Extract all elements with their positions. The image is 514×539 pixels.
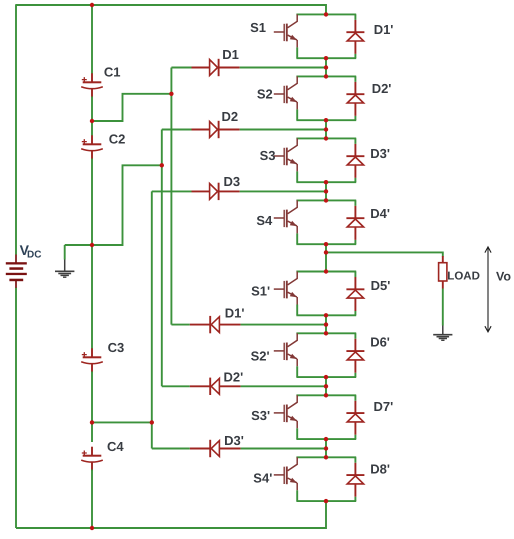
svg-text:D8': D8' (370, 461, 390, 476)
node cell 3 emitter junction (324, 180, 328, 184)
diode D3 (clamp) (152, 183, 326, 200)
wire C1-C2 node to clamp line L1 (92, 94, 171, 121)
svg-text:D3': D3' (224, 433, 244, 448)
node cell 1 emitter junction (324, 56, 328, 60)
node D2 cathode junction (324, 127, 328, 131)
label D2&#39; (clamp) (224, 370, 244, 385)
node D1' anode junction (324, 322, 328, 326)
svg-text:S3': S3' (251, 408, 270, 423)
transistor S2' (IGBT) (274, 333, 297, 377)
svg-text:D2': D2' (372, 81, 392, 96)
svg-text:D3': D3' (370, 146, 390, 161)
svg-text:S1: S1 (250, 20, 266, 35)
capacitor C3 (81, 348, 103, 372)
label D6' (370, 335, 390, 350)
node output tap (324, 250, 328, 254)
label D7' (374, 399, 394, 414)
svg-text:D2': D2' (224, 370, 244, 385)
wire cell 2 top rail (296, 75, 356, 77)
svg-text:S3: S3 (260, 148, 276, 163)
wire cell 1 top rail (296, 13, 356, 15)
wire cell 8 top rail (296, 456, 356, 458)
wire clamp line L1 (D1 anode to D1' cathode) (170, 68, 172, 325)
node cell 4 collector junction (324, 198, 328, 202)
node cell 6 collector junction (324, 331, 328, 335)
label S3' (251, 408, 270, 423)
wire cell 4 bottom rail (296, 243, 356, 245)
wire top rail from DC source to S1 collector (16, 5, 326, 14)
wire clamp line L3 (D3 anode to D3' cathode) (151, 191, 153, 448)
label S1' (251, 284, 270, 299)
transistor S1 (IGBT) (274, 14, 297, 58)
node C3-C4 midpoint (90, 420, 94, 424)
wire clamp line L2 (D2 anode to D2' cathode) (161, 130, 163, 387)
svg-text:D7': D7' (374, 399, 394, 414)
wire left bus lower segment (Vdc-) (15, 288, 17, 529)
label D8' (370, 461, 390, 476)
label D2 (222, 109, 239, 124)
svg-text:S2: S2 (257, 87, 273, 102)
label D2' (372, 81, 392, 96)
wire capacitor bus segment C1-C2 (91, 97, 93, 136)
wire cell 5 bottom rail (296, 314, 356, 316)
node cell 6 emitter junction (324, 375, 328, 379)
wire S1-S2 series link (325, 58, 327, 76)
wire load to ground (442, 289, 444, 326)
svg-text:DC: DC (27, 250, 41, 261)
node cell 4 emitter junction (324, 242, 328, 246)
node cell 2 emitter junction (324, 118, 328, 122)
label VDC (20, 242, 42, 261)
resistor LOAD (439, 256, 447, 289)
ground symbol at load (433, 326, 452, 341)
svg-text:S4': S4' (253, 471, 272, 486)
label S4' (253, 471, 272, 486)
wire cell 5 top rail (296, 271, 356, 273)
svg-text:D4': D4' (370, 206, 390, 221)
svg-text:D3: D3 (224, 174, 241, 189)
label D1&#39; (clamp) (225, 306, 245, 321)
wire capacitor bus segment top (91, 5, 93, 74)
svg-text:Vo: Vo (496, 269, 511, 283)
transistor S3 (IGBT) (274, 138, 297, 182)
wire S2'-S3' series link (325, 377, 327, 395)
label C3 (108, 340, 125, 355)
svg-text:S4: S4 (256, 213, 273, 228)
svg-text:D6': D6' (370, 335, 390, 350)
label D3&#39; (clamp) (224, 433, 244, 448)
wire cell 1 bottom rail (296, 57, 356, 59)
wire cell 3 bottom rail (296, 181, 356, 183)
wire cell 6 top rail (296, 332, 356, 334)
svg-text:C2: C2 (109, 132, 126, 147)
transistor S3' (IGBT) (274, 395, 297, 439)
transistor S1' (IGBT) (274, 272, 297, 316)
diode D6' (antiparallel of S2') (346, 333, 364, 377)
svg-text:D1': D1' (374, 22, 394, 37)
label D4' (370, 206, 390, 221)
ground symbol at neutral (55, 245, 74, 277)
transistor S2 (IGBT) (274, 76, 297, 120)
node cell 3 collector junction (324, 136, 328, 140)
transistor S4' (IGBT) (274, 457, 297, 501)
diode D8' (antiparallel of S4') (346, 457, 364, 501)
diode D2' (antiparallel of S2) (346, 76, 364, 120)
label LOAD (447, 271, 480, 283)
wire neutral from ground across bus to clamp line L2 (65, 165, 162, 245)
wire S4-S1' series link (output node) (325, 244, 327, 271)
label D5' (371, 278, 391, 293)
label Vo (496, 269, 511, 283)
wire C3-C4 node to clamp line L3 (92, 421, 152, 423)
diode D1 (clamp) (171, 59, 326, 76)
node neutral / ground tap (90, 243, 94, 247)
svg-text:C4: C4 (107, 439, 124, 454)
label D3' (370, 146, 390, 161)
node cell 1 collector junction (324, 12, 328, 16)
svg-text:C3: C3 (108, 340, 125, 355)
label S2 (257, 87, 273, 102)
wire cell 3 top rail (296, 137, 356, 139)
node D3 cathode junction (324, 189, 328, 193)
wire cell 7 bottom rail (296, 438, 356, 440)
label S2' (251, 349, 270, 364)
wire S3'-S4' series link (325, 439, 327, 457)
label C4 (107, 439, 124, 454)
svg-text:D5': D5' (371, 278, 391, 293)
capacitor C2 (81, 135, 103, 159)
node cell 8 collector junction (324, 455, 328, 459)
svg-text:D2: D2 (222, 109, 239, 124)
node cell 8 emitter junction (324, 499, 328, 503)
wire capacitor bus neutral segment C2-C3 (91, 159, 93, 349)
diode D5' (antiparallel of S1') (346, 272, 364, 316)
label D1 (222, 47, 239, 62)
node cell 7 collector junction (324, 393, 328, 397)
label S4 (256, 213, 273, 228)
label S3 (260, 148, 276, 163)
node D2' anode junction (324, 384, 328, 388)
node cell 7 emitter junction (324, 437, 328, 441)
label D1' (374, 22, 394, 37)
diode D3&#39; (clamp) (152, 440, 326, 457)
svg-text:C1: C1 (104, 65, 121, 80)
wire bottom rail from Vdc- to S4' emitter (16, 501, 326, 528)
label C1 (104, 65, 121, 80)
diode D3' (antiparallel of S3) (346, 138, 364, 182)
node D1 cathode junction (324, 65, 328, 69)
wire output to load (326, 252, 443, 256)
wire S3-S4 series link (325, 182, 327, 200)
wire cell 4 top rail (296, 199, 356, 201)
capacitor C1 (81, 73, 103, 97)
node C3-C4 link on L3 (150, 420, 154, 424)
node cell 5 collector junction (324, 269, 328, 273)
node bottom rail / capacitor bus junction (90, 526, 94, 530)
svg-text:D1': D1' (225, 306, 245, 321)
wire cell 6 bottom rail (296, 376, 356, 378)
wire capacitor bus segment C3-C4 (91, 372, 93, 443)
diode D1&#39; (clamp) (171, 316, 326, 333)
label C2 (109, 132, 126, 147)
wire capacitor bus segment bottom (91, 470, 93, 529)
label D3 (224, 174, 241, 189)
svg-text:S2': S2' (251, 349, 270, 364)
wire cell 7 top rail (296, 394, 356, 396)
diode D2 (clamp) (162, 121, 326, 138)
wire left bus upper segment (Vdc+ ) (15, 4, 17, 254)
node neutral wire on L2 (160, 163, 164, 167)
capacitor C4 (81, 447, 103, 471)
diode D4' (antiparallel of S4) (346, 200, 364, 244)
node step wire on L1 (169, 92, 173, 96)
diode D2&#39; (clamp) (162, 378, 326, 395)
arrow Vo output voltage (485, 247, 491, 332)
wire S1'-S2' series link (325, 315, 327, 333)
node cell 5 emitter junction (324, 313, 328, 317)
node D3' anode junction (324, 446, 328, 450)
wire S2-S3 series link (325, 120, 327, 138)
diode D1' (antiparallel of S1) (346, 14, 364, 58)
svg-text:LOAD: LOAD (447, 271, 480, 283)
wire cell 2 bottom rail (296, 119, 356, 121)
node C1-C2 midpoint (90, 119, 94, 123)
label S1 (250, 20, 266, 35)
diode D7' (antiparallel of S3') (346, 395, 364, 439)
node cell 2 collector junction (324, 74, 328, 78)
battery VDC (6, 255, 27, 288)
node top rail / capacitor bus junction (90, 3, 94, 7)
wire cell 8 bottom rail (296, 500, 356, 502)
svg-text:D1: D1 (222, 47, 239, 62)
transistor S4 (IGBT) (274, 200, 297, 244)
svg-text:S1': S1' (251, 284, 270, 299)
